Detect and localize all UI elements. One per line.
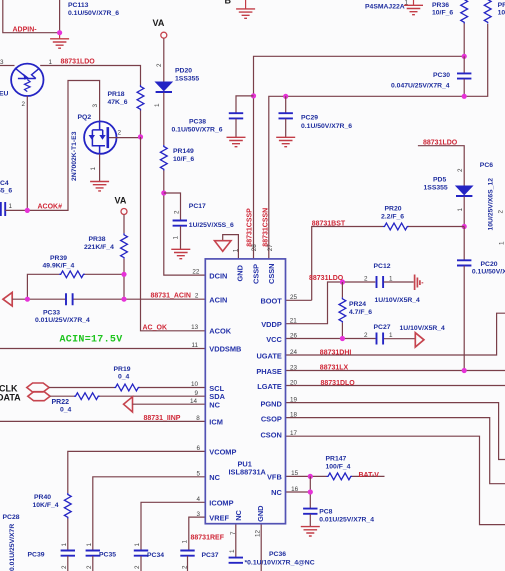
svg-text:47K_6: 47K_6 (108, 99, 128, 106)
capacitor C4 left edge (1, 202, 5, 216)
wire PQ2 source to ground (99, 154, 101, 182)
svg-text:88731REF: 88731REF (191, 535, 225, 542)
node PR18/PQ2/ACOK (138, 134, 143, 139)
resistor PR40 (64, 493, 71, 519)
svg-text:2: 2 (22, 101, 26, 108)
wire PD20 to PR149 (163, 93, 165, 146)
svg-text:1: 1 (134, 543, 141, 547)
svg-text:2: 2 (364, 332, 368, 339)
svg-text:1: 1 (457, 208, 464, 212)
resistor PR149 (160, 145, 167, 171)
svg-text:UGATE: UGATE (256, 351, 281, 360)
svg-text:PR38: PR38 (89, 236, 106, 243)
svg-text:PR39: PR39 (50, 255, 67, 262)
svg-text:AC_OK: AC_OK (143, 325, 168, 332)
node CSSN/PC29 branch (283, 94, 288, 99)
wire PC20 to LX (463, 266, 465, 371)
wire NC16 row (286, 476, 311, 508)
svg-text:PC35: PC35 (99, 552, 116, 559)
svg-text:ACOK: ACOK (209, 327, 231, 336)
svg-text:21: 21 (290, 318, 298, 325)
wire PC39 down (67, 556, 69, 571)
svg-text:2: 2 (61, 565, 68, 569)
svg-text:1: 1 (389, 275, 393, 282)
svg-text:BOOT: BOOT (260, 297, 282, 306)
ground PC17 (171, 249, 190, 258)
svg-text:2: 2 (134, 565, 141, 569)
node ACIN right (121, 297, 126, 302)
capacitor PC37 (180, 551, 194, 556)
svg-text:PC27: PC27 (374, 324, 391, 331)
svg-text:ACIN=17.5V: ACIN=17.5V (60, 334, 123, 345)
svg-text:PR149: PR149 (173, 148, 194, 155)
node VFB (308, 474, 313, 479)
wire railA to PC30 (463, 56, 465, 73)
svg-text:9: 9 (194, 390, 198, 397)
ground analog triangle above IC (223, 235, 239, 259)
svg-text:ACIN: ACIN (209, 295, 227, 304)
wire PC38 branch (236, 96, 254, 113)
svg-text:VCC: VCC (266, 335, 282, 344)
svg-text:17: 17 (290, 430, 298, 437)
wire PC12 to ground bars (384, 281, 414, 283)
svg-text:4: 4 (196, 496, 200, 503)
svg-text:PGND: PGND (260, 399, 282, 408)
svg-text:25: 25 (290, 294, 298, 301)
node rail A / PC30 (462, 54, 467, 59)
svg-text:PC12: PC12 (374, 263, 391, 270)
wire CSSP rail A (254, 56, 465, 259)
svg-text:221K/F_4: 221K/F_4 (84, 244, 114, 251)
svg-text:15: 15 (291, 470, 299, 477)
svg-text:1: 1 (389, 332, 393, 339)
svg-text:PR3: PR3 (498, 2, 505, 9)
wire VFB row (286, 475, 385, 477)
op-amp U1 main IC box ISL88731A (205, 259, 285, 524)
svg-text:PHASE: PHASE (256, 367, 282, 376)
node rail B / PC30 (462, 94, 467, 99)
svg-text:B: B (225, 0, 232, 6)
svg-text:ACOK#: ACOK# (38, 204, 63, 211)
node ACOK#/emitter (25, 208, 30, 213)
svg-text:88731LDO: 88731LDO (309, 275, 344, 282)
power node VA top (161, 32, 167, 38)
svg-text:0.1U/50V/X7R_6: 0.1U/50V/X7R_6 (172, 126, 223, 133)
ground P4SMAJ22A (413, 0, 415, 5)
capacitor PC8 (303, 509, 317, 514)
wire PGND row (286, 403, 505, 460)
svg-text:PC39: PC39 (28, 552, 45, 559)
wire PD5 to BST node (463, 197, 465, 227)
svg-text:PD5: PD5 (433, 177, 446, 184)
svg-text:PC38: PC38 (189, 119, 206, 126)
node PHASE/PC20 (462, 368, 467, 373)
svg-text:1: 1 (499, 241, 505, 245)
wire PR36 to rail A (463, 24, 465, 57)
svg-text:CSSP: CSSP (251, 264, 260, 284)
wire PC37 down (187, 556, 189, 571)
wire PC20 column (463, 227, 465, 260)
resistor PR36 top (461, 0, 468, 24)
svg-text:88731BST: 88731BST (312, 220, 346, 227)
svg-text:88731DHI: 88731DHI (320, 349, 352, 356)
node ACIN left (25, 297, 30, 302)
svg-text:PR24: PR24 (349, 301, 366, 308)
svg-text:2: 2 (174, 210, 181, 214)
svg-text:NC: NC (271, 488, 282, 497)
ground PC12 sideways bars (415, 275, 423, 291)
svg-text:ADPIN-: ADPIN- (13, 27, 38, 34)
svg-text:88731LDO: 88731LDO (423, 140, 458, 147)
svg-text:2N7002K-T1-E3: 2N7002K-T1-E3 (71, 131, 78, 181)
port NC pin14 (124, 397, 133, 412)
svg-text:DATA: DATA (0, 392, 21, 402)
svg-text:88731DLO: 88731DLO (321, 380, 356, 387)
resistor PR22 (74, 393, 100, 400)
svg-text:PC28: PC28 (3, 514, 20, 521)
svg-text:22: 22 (192, 269, 200, 276)
svg-text:0.047U/25V/X7R_4: 0.047U/25V/X7R_4 (391, 83, 450, 90)
wire ACOK# net (5, 81, 99, 211)
svg-text:PR20: PR20 (385, 206, 402, 213)
ground below ADPIN- box (59, 33, 61, 39)
svg-text:49.9K/F_4: 49.9K/F_4 (43, 262, 75, 269)
svg-text:PR19: PR19 (114, 366, 131, 373)
resistor PR19 (114, 384, 140, 391)
wire PC113/ADPIN- box top-left (3, 0, 60, 33)
svg-text:12: 12 (254, 529, 261, 537)
svg-text:PR18: PR18 (108, 91, 125, 98)
ground PQ2 (90, 182, 109, 191)
svg-text:10/F_6: 10/F_6 (173, 156, 194, 163)
svg-text:88731LX: 88731LX (320, 365, 349, 372)
wire UGATE row (286, 313, 505, 355)
svg-text:10U/25V/X6S_12: 10U/25V/X6S_12 (488, 178, 495, 231)
svg-text:3: 3 (92, 104, 99, 108)
capacitor PC12 series (377, 276, 384, 288)
svg-text:1U/10V/X5R_4: 1U/10V/X5R_4 (400, 325, 446, 332)
svg-text:4.7/F_6: 4.7/F_6 (349, 309, 372, 316)
wire PC36 column (235, 524, 237, 558)
node VA/PC17 (161, 190, 166, 195)
wire PC29 to ground (285, 119, 287, 138)
wire VDDP riser to LDO row (286, 282, 376, 324)
wire NC stub (133, 403, 206, 405)
wire VA to PD20 (163, 38, 165, 82)
svg-text:CSSN: CSSN (267, 263, 276, 284)
wire PR40 to PC39 (67, 519, 69, 551)
wire VREF row (189, 517, 206, 550)
svg-text:PR147: PR147 (326, 456, 347, 463)
svg-text:1U/10V/X5R_4: 1U/10V/X5R_4 (375, 297, 421, 304)
svg-text:VCOMP: VCOMP (209, 448, 236, 457)
svg-text:BAT-V: BAT-V (359, 472, 380, 479)
svg-text:PR36: PR36 (432, 2, 449, 9)
capacitor PC30 (457, 73, 471, 78)
svg-text:GND: GND (236, 264, 245, 281)
svg-text:1: 1 (182, 540, 189, 544)
svg-text:PC113: PC113 (68, 2, 89, 9)
svg-text:PC17: PC17 (189, 203, 206, 210)
wire CSSN rail B (269, 24, 488, 259)
wire PR24 leads (341, 282, 343, 339)
svg-text:100/F_4: 100/F_4 (326, 463, 351, 470)
svg-text:16: 16 (291, 486, 299, 493)
wire 88731LDO stub to PD5 (418, 146, 464, 186)
transistor Q (digital) top-left (11, 64, 43, 96)
svg-text:1: 1 (232, 248, 239, 252)
svg-text:14: 14 (190, 398, 198, 405)
svg-text:0.1U/50V/X7R_6: 0.1U/50V/X7R_6 (68, 10, 119, 17)
svg-text:ICM: ICM (209, 418, 223, 427)
node VCC/PR24 (340, 336, 345, 341)
svg-text:VREF: VREF (209, 513, 229, 522)
svg-text:3: 3 (196, 511, 200, 518)
svg-text:0.1U/50V/X: 0.1U/50V/X (472, 268, 505, 275)
svg-text:P4SMAJ22A: P4SMAJ22A (365, 4, 405, 11)
svg-text:1: 1 (229, 549, 236, 553)
svg-text:1: 1 (90, 167, 97, 171)
svg-text:2: 2 (182, 565, 189, 569)
capacitor PC39 (61, 551, 75, 556)
svg-text:11: 11 (191, 342, 198, 349)
svg-text:NC: NC (209, 400, 220, 409)
resistor PR24 (339, 297, 346, 323)
resistor PR37 top right (484, 0, 491, 24)
svg-text:ISL88731A: ISL88731A (229, 468, 267, 477)
svg-text:6: 6 (196, 445, 200, 452)
ground PC8 (301, 527, 320, 536)
wire VCC row (286, 338, 416, 340)
svg-text:2: 2 (86, 565, 93, 569)
svg-text:PC34: PC34 (147, 552, 164, 559)
wire SCL row (49, 387, 205, 389)
node LDO/PR24 (340, 279, 345, 284)
diode PD20 1SS355 (156, 82, 172, 92)
transistor PQ2 MOSFET (84, 121, 116, 154)
svg-text:PC37: PC37 (202, 552, 219, 559)
diode PD5 1SS355 (456, 186, 472, 196)
svg-text:8: 8 (196, 415, 200, 422)
svg-text:0.01U/25V/X7R_4: 0.01U/25V/X7R_4 (319, 517, 374, 524)
wire PHASE row (286, 370, 505, 372)
svg-text:0_4: 0_4 (60, 406, 72, 413)
wire ACIN row (12, 298, 205, 300)
svg-text:VDDP: VDDP (261, 320, 282, 329)
power node VA second (121, 209, 127, 215)
svg-text:10/: 10/ (498, 10, 505, 17)
svg-text:55_6: 55_6 (0, 188, 12, 195)
wire PR39 branch (27, 274, 124, 299)
wire CSON row (286, 436, 505, 524)
capacitor PC17 (173, 221, 187, 226)
svg-text:EU: EU (0, 91, 9, 98)
wire base left of transistor (0, 65, 15, 67)
svg-text:1SS355: 1SS355 (424, 184, 448, 191)
svg-text:0.1U/50V/X7R_6: 0.1U/50V/X7R_6 (301, 123, 352, 130)
wire PC17 to ground (180, 226, 182, 249)
svg-text:1: 1 (61, 543, 68, 547)
svg-text:*0.1U/10V/X7R_4@NC: *0.1U/10V/X7R_4@NC (245, 559, 315, 566)
svg-text:1: 1 (86, 543, 93, 547)
port DATA bidirectional (28, 392, 50, 401)
svg-text:18: 18 (290, 411, 298, 418)
ground PC29 (276, 137, 295, 146)
svg-text:7: 7 (230, 531, 237, 535)
wire PC29 branch (285, 96, 287, 113)
svg-text:0_4: 0_4 (118, 373, 130, 380)
svg-text:CSOP: CSOP (261, 414, 282, 423)
node BST/PD5 (462, 224, 467, 229)
port CLK bidirectional (27, 383, 49, 392)
wire PR38 to divider node (123, 259, 125, 275)
wire PC8 to ground (309, 514, 311, 527)
svg-text:10/F_6: 10/F_6 (432, 10, 453, 17)
svg-text:GND: GND (256, 505, 265, 522)
wire transistor emitter down to ACOK# (26, 96, 28, 210)
svg-text:PR40: PR40 (34, 494, 51, 501)
svg-text:88731LDO: 88731LDO (61, 59, 96, 66)
svg-text:PC29: PC29 (301, 115, 318, 122)
svg-text:DCIN: DCIN (209, 271, 227, 280)
svg-text:NC: NC (234, 509, 243, 520)
resistor PR20 (383, 223, 409, 230)
svg-text:C4: C4 (0, 180, 9, 187)
svg-text:PC33: PC33 (43, 309, 60, 316)
wire PQ2 drain to junction (109, 137, 141, 139)
wire PR149 to DCIN corner (164, 171, 206, 276)
svg-text:1: 1 (173, 236, 180, 240)
svg-text:24: 24 (290, 349, 298, 356)
svg-text:88731CSSN: 88731CSSN (262, 208, 269, 247)
svg-text:19: 19 (290, 396, 298, 403)
svg-text:1: 1 (405, 0, 409, 7)
svg-text:PQ2: PQ2 (78, 114, 92, 121)
capacitor PC29 (279, 113, 293, 118)
svg-text:PC36: PC36 (269, 551, 286, 558)
port PC27 output (415, 333, 424, 347)
wire VA2 to PR38 (123, 215, 125, 234)
svg-text:3: 3 (0, 59, 4, 66)
capacitor PC38 (229, 113, 243, 118)
capacitor PC35 (86, 551, 100, 556)
svg-text:10K/F_4: 10K/F_4 (33, 502, 59, 509)
wire GND bottom column (260, 524, 262, 571)
capacitor PC27 series (377, 333, 384, 345)
svg-text:2: 2 (195, 293, 199, 300)
svg-text:PC20: PC20 (481, 261, 498, 268)
svg-text:1: 1 (49, 59, 53, 66)
ground PC38 (227, 137, 246, 146)
svg-text:PC8: PC8 (319, 509, 332, 516)
svg-text:PD20: PD20 (175, 68, 192, 75)
svg-text:10: 10 (191, 381, 199, 388)
svg-text:1: 1 (9, 203, 13, 210)
wire to PC17 (164, 193, 181, 220)
svg-text:VDDSMB: VDDSMB (209, 344, 241, 353)
svg-text:PC30: PC30 (433, 72, 450, 79)
wire ICM row (0, 420, 205, 422)
svg-text:NC: NC (209, 473, 220, 482)
wire CSOP row (286, 418, 505, 484)
svg-text:2: 2 (156, 63, 163, 67)
wire VCOMP row (68, 451, 206, 493)
svg-text:ICOMP: ICOMP (209, 499, 233, 508)
port ACIN input (3, 292, 12, 306)
wire NC5 row (93, 477, 206, 550)
node CSSP/PC38 branch (251, 93, 256, 98)
svg-text:5: 5 (196, 471, 200, 478)
wire PC35 down (92, 556, 94, 571)
resistor PR147 (327, 473, 353, 480)
svg-text:VFB: VFB (267, 473, 282, 482)
capacitor PC20 (457, 260, 471, 265)
wire ICOMP row (141, 502, 205, 550)
svg-text:CSON: CSON (260, 430, 281, 439)
svg-text:26: 26 (290, 332, 298, 339)
wire VDDSMB row (0, 348, 205, 350)
svg-text:1SS355: 1SS355 (175, 75, 199, 82)
svg-text:0.01U/25V/X7R: 0.01U/25V/X7R (9, 524, 16, 571)
svg-text:2: 2 (457, 168, 464, 172)
capacitor PC36 (229, 558, 243, 563)
svg-text:2: 2 (118, 130, 122, 137)
ground top middle (245, 0, 247, 9)
wire 88731BST row (286, 227, 465, 301)
resistor PR38 (121, 233, 128, 258)
capacitor PC34 (134, 551, 148, 556)
svg-text:20: 20 (290, 379, 298, 386)
svg-text:88731_IINP: 88731_IINP (144, 415, 181, 422)
svg-text:2: 2 (364, 275, 368, 282)
node NC16 (308, 489, 313, 494)
svg-text:PR22: PR22 (52, 399, 70, 406)
svg-text:PC6: PC6 (480, 162, 493, 169)
wire PC34 down (140, 556, 142, 571)
svg-text:23: 23 (290, 364, 298, 371)
wire PC38 to ground (235, 119, 237, 138)
node junction ADPIN (57, 30, 62, 35)
wire 88731LDO from transistor to PR18 (40, 66, 140, 86)
svg-text:VA: VA (153, 18, 165, 28)
wire AC_OK vertical long (141, 137, 206, 331)
node divider (121, 272, 126, 277)
wire PR18 to junction (140, 111, 142, 137)
svg-text:2: 2 (498, 210, 505, 214)
svg-text:1U/25V/X5S_6: 1U/25V/X5S_6 (189, 222, 234, 229)
capacitor PC33 series (66, 293, 73, 305)
resistor PR39 (59, 271, 84, 278)
wire LGATE row (286, 385, 505, 387)
wire SDA row (50, 395, 205, 397)
svg-text:LGATE: LGATE (257, 382, 282, 391)
svg-text:13: 13 (191, 324, 199, 331)
svg-text:0.01U/25V/X7R_4: 0.01U/25V/X7R_4 (35, 317, 90, 324)
svg-text:88731_ACIN: 88731_ACIN (151, 293, 191, 300)
svg-text:1: 1 (154, 103, 161, 107)
svg-text:88731CSSP: 88731CSSP (247, 208, 254, 247)
wire PC30 to rail B (463, 79, 465, 96)
svg-text:VA: VA (115, 196, 127, 206)
svg-text:2.2/F_6: 2.2/F_6 (381, 213, 404, 220)
resistor PR18 (137, 85, 144, 111)
